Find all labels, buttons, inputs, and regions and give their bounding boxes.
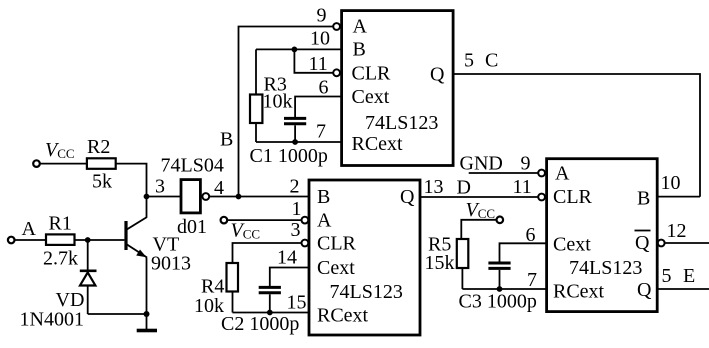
resistor R2 [87, 158, 116, 169]
wire diode to emitter node [88, 313, 147, 315]
svg-text:14: 14 [277, 247, 297, 269]
svg-text:C1 1000p: C1 1000p [250, 145, 328, 167]
svg-text:RCext: RCext [553, 281, 605, 303]
svg-text:5k: 5k [92, 171, 112, 193]
wire junction to pin 11 U1 [294, 49, 332, 72]
svg-text:R1: R1 [49, 213, 72, 235]
svg-text:A: A [555, 163, 570, 185]
wire A to R1 [15, 239, 46, 241]
svg-text:Cext: Cext [317, 257, 355, 279]
svg-text:D: D [457, 177, 471, 199]
resistor R1 [46, 234, 75, 245]
resistor R5 [457, 239, 469, 289]
inverter output bubble [202, 193, 209, 200]
wire pin 10 U3 [657, 196, 700, 198]
svg-text:5: 5 [662, 265, 672, 287]
svg-text:RCext: RCext [317, 305, 369, 327]
svg-text:A: A [317, 210, 332, 232]
svg-text:10: 10 [310, 28, 330, 50]
node B junction [236, 194, 242, 200]
svg-text:9: 9 [521, 153, 531, 175]
wire pin 14 U2 [270, 268, 309, 287]
svg-text:11: 11 [309, 53, 328, 75]
node emitter junction [144, 311, 150, 317]
op IC U1 74LS123 box [342, 11, 454, 166]
pin 1 bubble U2 [302, 217, 309, 224]
wire pin 12 U3 [665, 242, 709, 244]
svg-text:Cext: Cext [352, 86, 390, 108]
wire node to inverter input [147, 196, 182, 198]
svg-text:d01: d01 [177, 216, 207, 238]
pin 9 bubble U1 [333, 23, 340, 30]
svg-text:7: 7 [527, 269, 537, 291]
node R3 top junction [292, 47, 298, 53]
node base junction [85, 237, 91, 243]
transistor VT 9013 [124, 197, 147, 315]
svg-text:10k: 10k [263, 91, 293, 113]
svg-text:13: 13 [424, 176, 444, 198]
diode VD 1N4001 [80, 240, 97, 314]
svg-text:7: 7 [316, 121, 326, 143]
svg-text:11: 11 [513, 176, 532, 198]
svg-text:6: 6 [526, 224, 536, 246]
svg-text:B: B [317, 186, 330, 208]
svg-text:74LS123: 74LS123 [330, 281, 403, 303]
svg-text:CLR: CLR [553, 186, 593, 208]
wire pin 7 U3 [462, 288, 546, 290]
svg-text:RCext: RCext [352, 133, 404, 155]
node C1 bottom junction [292, 139, 298, 145]
wire GND to pin 9 U3 [469, 172, 538, 174]
svg-text:1N4001: 1N4001 [20, 309, 84, 331]
wire node B to pin 2 of U2 [239, 196, 310, 198]
capacitor C2 [259, 287, 281, 312]
svg-text:6: 6 [319, 77, 329, 99]
capacitor C3 [488, 263, 510, 289]
pin 12 bubble U3 [658, 240, 665, 247]
wire pin 5 U1 to pin 10 U3 [453, 74, 700, 197]
svg-text:Q: Q [430, 64, 445, 86]
wire Vcc to R5 [461, 220, 496, 239]
wire pin 6 U3 [500, 243, 547, 261]
svg-text:2: 2 [290, 176, 300, 198]
svg-text:C3 1000p: C3 1000p [459, 291, 537, 313]
node collector junction [144, 194, 150, 200]
svg-text:B: B [353, 39, 366, 61]
pin 11 bubble U1 [333, 69, 340, 76]
svg-text:A: A [22, 218, 37, 240]
resistor R4 [227, 263, 239, 313]
terminal Vcc right [497, 217, 504, 224]
pin 9 bubble U3 [538, 170, 545, 177]
wire node B up to pin 9 of U1 [239, 27, 333, 197]
svg-text:3: 3 [155, 176, 165, 198]
svg-text:Q: Q [635, 232, 650, 254]
svg-text:Q: Q [400, 186, 415, 208]
svg-text:9: 9 [317, 5, 327, 27]
svg-text:GND: GND [460, 153, 503, 175]
op IC U2 74LS123 box [309, 180, 420, 335]
label Q-bar U3 [635, 231, 651, 255]
svg-text:E: E [683, 265, 695, 287]
wire pin 3 U2 to R4 [233, 243, 301, 263]
resistor R3 [250, 49, 262, 142]
svg-text:74LS04: 74LS04 [161, 155, 224, 177]
wire to pin 1 U2 [228, 219, 301, 221]
wire pin 15 U2 [233, 312, 310, 314]
wire pin 7 U1 [256, 141, 342, 143]
svg-text:3: 3 [291, 219, 301, 241]
terminal Vcc left [33, 160, 40, 167]
svg-text:15k: 15k [425, 252, 455, 274]
svg-text:2.7k: 2.7k [43, 248, 78, 270]
wire Vcc to R2 [40, 163, 87, 165]
svg-text:Q: Q [637, 279, 652, 301]
terminal A [8, 237, 15, 244]
node C2 bottom junction [267, 310, 273, 316]
svg-text:R2: R2 [87, 136, 110, 158]
svg-text:C2 1000p: C2 1000p [221, 313, 299, 335]
svg-text:10: 10 [661, 172, 681, 194]
svg-text:B: B [220, 129, 233, 151]
op IC U3 74LS123 box [547, 159, 658, 312]
terminal pin1 input [221, 217, 228, 224]
ground [137, 314, 157, 332]
svg-text:CLR: CLR [352, 62, 392, 84]
svg-text:15: 15 [287, 292, 307, 314]
svg-text:CLR: CLR [317, 233, 357, 255]
capacitor C1 [284, 118, 306, 142]
svg-text:74LS123: 74LS123 [569, 257, 642, 279]
inverter U4 74LS04 box [181, 180, 200, 213]
svg-text:10k: 10k [194, 295, 224, 317]
pin 3 bubble U2 [302, 240, 309, 247]
svg-text:1: 1 [292, 198, 302, 220]
wire pin 6 U1 [295, 97, 342, 118]
wire pin 5 U3 [657, 288, 709, 290]
svg-text:9013: 9013 [151, 253, 191, 275]
svg-text:5: 5 [464, 50, 474, 72]
wire inverter output to node B [210, 196, 239, 198]
svg-text:Cext: Cext [553, 234, 591, 256]
svg-text:12: 12 [667, 220, 687, 242]
svg-text:74LS123: 74LS123 [365, 112, 438, 134]
svg-text:A: A [353, 16, 368, 38]
svg-text:C: C [485, 50, 498, 72]
svg-text:B: B [637, 188, 650, 210]
wire R1 to base [75, 239, 125, 241]
node C3 bottom junction [497, 286, 503, 292]
wire pin 13 U2 to pin 11 U3 [420, 196, 538, 198]
pin 11 bubble U3 [538, 194, 545, 201]
wire R2 to collector node [116, 164, 147, 197]
wire pin 10 U1 [256, 48, 342, 50]
